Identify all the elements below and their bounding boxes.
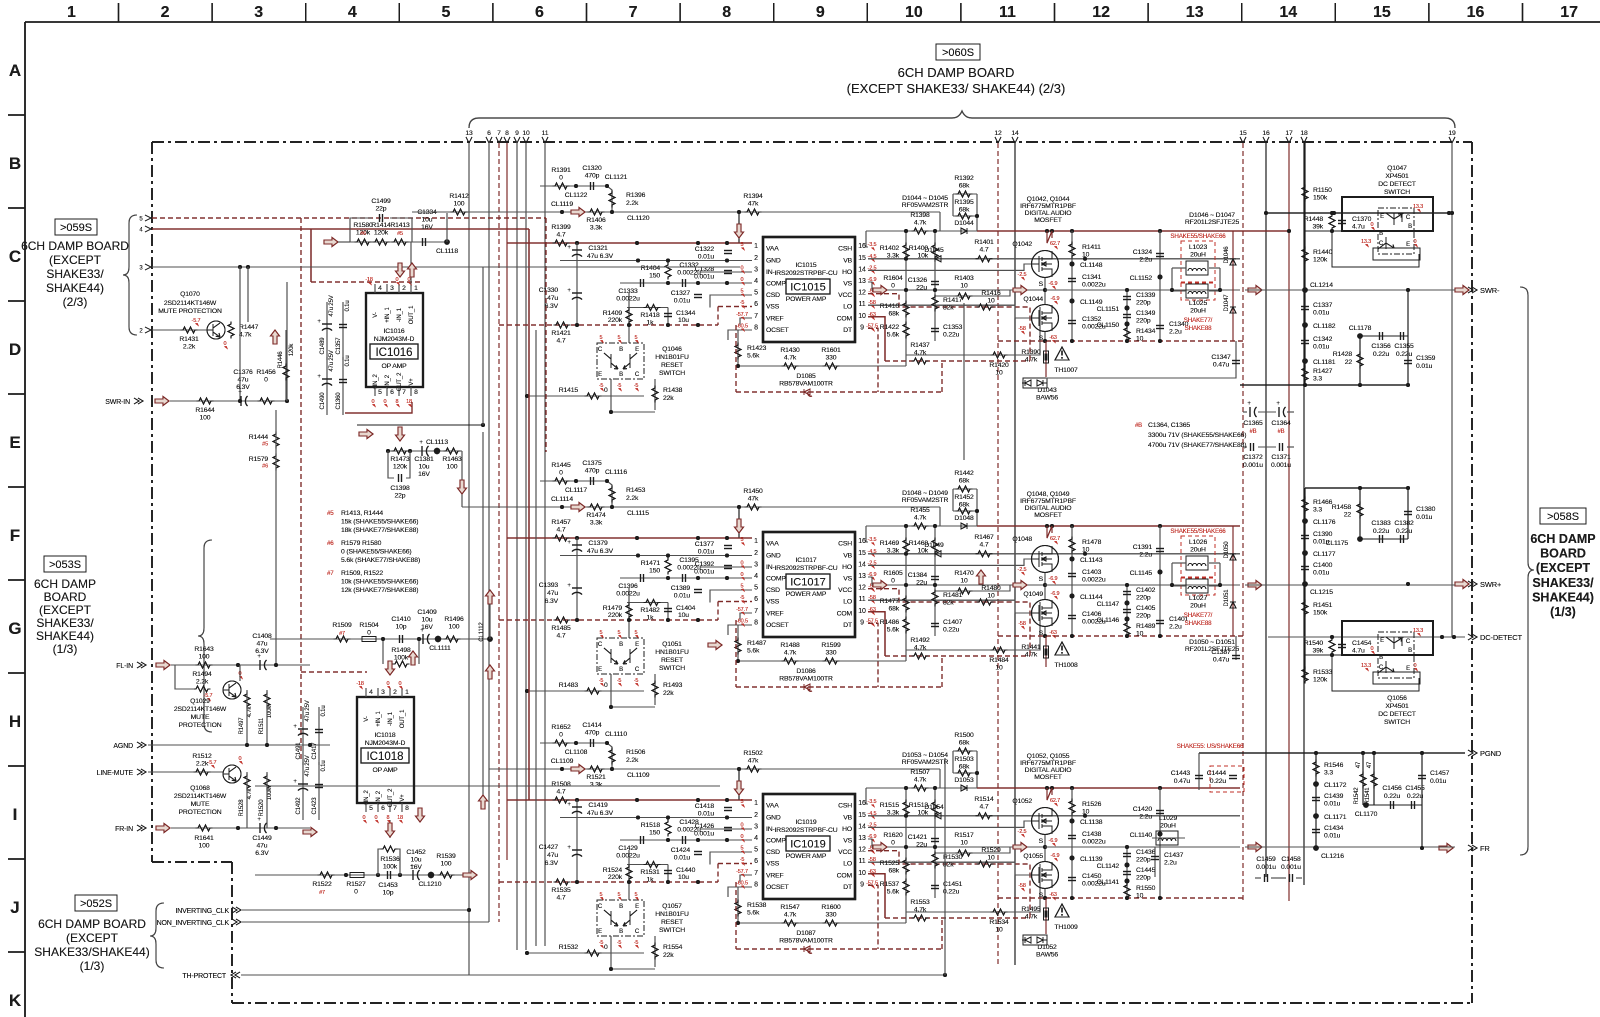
svg-text:R1451: R1451	[1313, 602, 1333, 609]
bottom dashed rail	[998, 635, 1245, 637]
capacitor C1427	[576, 818, 578, 883]
svg-text:0: 0	[367, 630, 371, 637]
svg-text:10: 10	[1082, 809, 1090, 816]
svg-text:-IN_2: -IN_2	[376, 790, 382, 805]
svg-text:L1029: L1029	[1159, 815, 1178, 822]
junction CL1170	[1363, 802, 1369, 808]
svg-text:6CH DAMP BOARD: 6CH DAMP BOARD	[38, 917, 146, 931]
capacitor C1428	[683, 836, 686, 844]
svg-text:D1045: D1045	[924, 247, 944, 254]
svg-text:S: S	[1039, 838, 1044, 845]
svg-text:R1493: R1493	[663, 682, 683, 689]
junction CL1109	[610, 767, 614, 771]
resistor R1467	[976, 551, 993, 557]
junction CL1172	[1313, 781, 1319, 787]
capacitor cluster C1490	[317, 350, 351, 415]
svg-text:CL1112: CL1112	[479, 622, 485, 642]
resistor R1417	[932, 295, 938, 312]
svg-text:120k: 120k	[1313, 257, 1328, 264]
svg-text:18: 18	[1300, 130, 1308, 137]
svg-text:220p: 220p	[1136, 875, 1151, 882]
junction CL1152	[1158, 275, 1163, 280]
resistor R1479	[628, 588, 630, 638]
dc detect Q1047	[1332, 165, 1433, 267]
svg-text:CL1143: CL1143	[1080, 557, 1103, 564]
capacitor C1326	[931, 282, 939, 285]
svg-text:CL1114: CL1114	[551, 496, 573, 503]
mosfet Q1044	[1032, 305, 1059, 332]
svg-text:CL1122: CL1122	[565, 192, 588, 199]
resistor R1547 and R1600	[738, 922, 886, 924]
svg-text:R1441: R1441	[1021, 644, 1041, 651]
svg-text:68k: 68k	[959, 740, 970, 747]
right cluster IC1019	[866, 788, 1240, 949]
svg-text:82k: 82k	[943, 600, 954, 607]
resistor R1445	[553, 478, 570, 484]
svg-text:SWITCH: SWITCH	[1384, 719, 1410, 726]
svg-text:3: 3	[254, 4, 263, 21]
svg-text:C1417: C1417	[312, 742, 318, 760]
svg-text:-5.7: -5.7	[192, 318, 201, 324]
svg-text:47k: 47k	[748, 758, 759, 765]
capacitor C1379	[576, 538, 578, 556]
svg-text:R1522: R1522	[312, 881, 332, 888]
resistor R1418	[627, 307, 668, 309]
top header >060S	[847, 44, 1066, 96]
svg-text:10: 10	[905, 4, 923, 21]
svg-text:47: 47	[1356, 761, 1362, 768]
svg-text:150: 150	[649, 568, 660, 575]
resistor R1422	[903, 322, 909, 339]
svg-text:120k: 120k	[374, 230, 389, 237]
svg-text:R1470: R1470	[954, 570, 974, 577]
svg-text:R1550: R1550	[1136, 885, 1156, 892]
svg-text:-5: -5	[634, 678, 639, 684]
resistor R1537	[903, 879, 909, 896]
svg-text:7: 7	[754, 870, 758, 877]
resistor R1396	[609, 191, 615, 208]
svg-text:12: 12	[994, 130, 1002, 137]
left header >053S	[34, 540, 212, 732]
capacitor C1322	[724, 251, 732, 254]
svg-text:-57.7: -57.7	[736, 312, 748, 318]
svg-text:4.7: 4.7	[980, 247, 989, 254]
svg-text:C1437: C1437	[1164, 852, 1184, 859]
svg-text:VSS: VSS	[766, 304, 780, 311]
G row R1509	[255, 303, 964, 946]
capacitor C1439	[1312, 798, 1320, 801]
svg-text:-63: -63	[1049, 892, 1057, 898]
svg-text:R1535: R1535	[551, 887, 571, 894]
svg-text:47u: 47u	[547, 590, 558, 597]
svg-text:2.2u: 2.2u	[1139, 552, 1152, 559]
resistor R1484	[906, 602, 1040, 650]
junction CL1122	[574, 184, 578, 188]
svg-text:17: 17	[1285, 130, 1293, 137]
op-amp IC1018	[356, 681, 414, 824]
junction CL1145	[1158, 570, 1163, 575]
power amp IC1017	[736, 532, 878, 637]
svg-text:11: 11	[859, 596, 866, 603]
IC1018 top dashed	[301, 671, 367, 673]
capacitor C1328	[724, 271, 732, 274]
svg-text:BAW56: BAW56	[1036, 395, 1058, 402]
svg-text:FR-IN: FR-IN	[115, 826, 133, 833]
svg-text:10p: 10p	[396, 624, 407, 631]
svg-text:R1508: R1508	[551, 781, 571, 788]
capacitor C1389	[694, 590, 702, 593]
svg-text:C1405: C1405	[1136, 605, 1156, 612]
svg-text:0: 0	[604, 682, 608, 689]
resistor R1525	[903, 858, 909, 875]
svg-text:LO: LO	[843, 599, 852, 606]
svg-text:R1540: R1540	[1304, 640, 1324, 647]
svg-text:13: 13	[465, 130, 473, 137]
capacitor C1404	[667, 603, 669, 621]
svg-text:12: 12	[858, 585, 866, 592]
svg-text:D1047: D1047	[1224, 294, 1230, 312]
resistor R1507	[912, 785, 929, 791]
svg-text:R1463: R1463	[442, 456, 462, 463]
right IO arrows	[1439, 286, 1523, 854]
resistor R1553	[912, 915, 929, 921]
svg-text:SWITCH: SWITCH	[659, 370, 685, 377]
svg-text:0.001u: 0.001u	[1256, 864, 1276, 871]
junction CL1115	[610, 505, 614, 509]
svg-text:CL1214: CL1214	[1310, 282, 1333, 289]
svg-text:-5: -5	[599, 940, 604, 946]
svg-text:C1489: C1489	[320, 337, 326, 355]
capacitor C1426	[724, 828, 732, 831]
svg-text:10u: 10u	[678, 612, 689, 619]
svg-text:4.7: 4.7	[980, 542, 989, 549]
R1444 R1579 resistors	[249, 410, 279, 665]
svg-text:6: 6	[535, 4, 544, 21]
bottom dashed rail	[998, 897, 1245, 899]
resistor R1478	[1071, 526, 1073, 636]
svg-text:CL1141: CL1141	[1097, 879, 1120, 886]
junction CL1178	[1359, 336, 1361, 385]
resistor R1451	[1302, 600, 1308, 617]
SWR- rail	[1245, 289, 1455, 291]
power amp IC1017	[736, 532, 878, 637]
svg-text:R1150: R1150	[1313, 187, 1332, 194]
svg-text:4.7k: 4.7k	[1025, 357, 1038, 364]
svg-text:VREF: VREF	[766, 315, 784, 322]
svg-text:#7: #7	[319, 890, 325, 896]
capacitor C1321	[576, 243, 578, 261]
svg-text:R1527: R1527	[346, 881, 366, 888]
svg-text:CL1121: CL1121	[605, 174, 628, 181]
svg-text:2: 2	[754, 550, 758, 557]
junction CL1176	[1302, 518, 1308, 524]
svg-text:C1453: C1453	[378, 882, 398, 889]
svg-text:R1434: R1434	[1136, 328, 1156, 335]
svg-text:39k: 39k	[1312, 224, 1323, 231]
junction CL1141	[1125, 879, 1130, 884]
svg-text:#6: #6	[327, 540, 334, 547]
svg-text:CL1140: CL1140	[1130, 832, 1153, 839]
resistor R1487	[737, 625, 739, 661]
svg-text:15: 15	[1373, 4, 1391, 21]
capacitor C1341	[1068, 279, 1076, 282]
svg-text:8: 8	[722, 4, 731, 21]
svg-text:D1086: D1086	[796, 668, 816, 675]
svg-text:470p: 470p	[585, 468, 600, 475]
svg-text:1: 1	[754, 538, 758, 545]
junction CL1170	[1363, 802, 1369, 808]
svg-text:C1423: C1423	[312, 797, 318, 815]
VSS rail	[499, 881, 718, 883]
wire rows	[560, 554, 752, 636]
svg-text:R1500: R1500	[954, 732, 974, 739]
resistor R1471	[665, 558, 671, 575]
svg-text:0.22u: 0.22u	[1384, 793, 1401, 800]
svg-text:C1457: C1457	[1430, 770, 1450, 777]
resistor R1652	[553, 740, 570, 746]
svg-text:10: 10	[987, 298, 995, 305]
wire rows	[560, 816, 752, 898]
wire pin2 run	[152, 329, 207, 331]
capacitor C1450	[1068, 878, 1076, 881]
svg-text:R1390: R1390	[1021, 349, 1041, 356]
svg-text:20uH: 20uH	[1190, 603, 1206, 610]
arrows near IC1016	[271, 330, 280, 344]
svg-text:INVERTING_CLK: INVERTING_CLK	[175, 908, 229, 915]
svg-text:-18: -18	[356, 681, 364, 687]
resistor R1442	[953, 470, 979, 529]
junction CL1149	[1070, 299, 1075, 304]
right col top	[1240, 143, 1454, 385]
resistor R1396	[609, 191, 615, 208]
capacitor C1359	[1407, 290, 1409, 385]
svg-text:100: 100	[199, 843, 210, 850]
transistor Q1046|HN1B01FU|RESET|SWITCH	[597, 335, 689, 392]
capacitor C1395	[683, 574, 686, 582]
resistor R1514	[976, 813, 993, 819]
svg-text:100k: 100k	[394, 655, 409, 662]
svg-text:CSH: CSH	[838, 803, 852, 810]
capacitor C1459 C1458	[1255, 856, 1302, 882]
mute transistor Q1070	[158, 267, 258, 401]
dc detect Q1047	[1332, 165, 1433, 267]
inductor L1025	[1186, 284, 1208, 298]
AGND row	[113, 742, 330, 750]
svg-text:IC1019: IC1019	[790, 839, 825, 851]
svg-text:3: 3	[754, 823, 758, 830]
svg-text:LINE-MUTE: LINE-MUTE	[97, 770, 134, 777]
svg-text:4.7: 4.7	[557, 232, 566, 239]
junction CL1149	[1070, 299, 1075, 304]
capacitor C1418	[724, 808, 732, 811]
svg-text:R1509, R1522: R1509, R1522	[341, 570, 383, 577]
capacitor cluster C1492	[293, 755, 327, 820]
svg-text:3.3k: 3.3k	[590, 520, 603, 527]
svg-text:VREF: VREF	[766, 872, 784, 879]
capacitor C1332	[683, 279, 686, 287]
svg-text:6: 6	[381, 805, 385, 812]
svg-text:4.7k: 4.7k	[784, 355, 797, 362]
svg-text:3: 3	[381, 689, 385, 696]
svg-text:-57.7: -57.7	[736, 869, 748, 875]
capacitor C1443	[1198, 753, 1200, 790]
capacitor C1342	[1301, 341, 1309, 344]
IC1018 bottom row	[255, 820, 477, 897]
svg-text:CL1149: CL1149	[1080, 299, 1103, 306]
svg-text:SHAKE55/SHAKE66: SHAKE55/SHAKE66	[1170, 233, 1226, 240]
svg-text:13.3: 13.3	[1413, 628, 1423, 634]
junction CL1171	[1313, 813, 1319, 819]
svg-text:CL1210: CL1210	[419, 881, 442, 888]
svg-text:VS: VS	[843, 281, 852, 288]
svg-text:C1458: C1458	[1281, 856, 1301, 863]
resistor R1411	[1071, 231, 1073, 341]
svg-text:R1530: R1530	[943, 854, 963, 861]
wire pin3 run	[152, 266, 740, 268]
svg-text:4.7k: 4.7k	[914, 515, 927, 522]
svg-text:R1514: R1514	[974, 796, 994, 803]
resistor R1532	[527, 952, 644, 954]
inductor L1023	[1232, 231, 1234, 341]
svg-text:C1438: C1438	[1082, 831, 1102, 838]
svg-text:RESET: RESET	[661, 362, 683, 369]
resistor R1406	[588, 209, 605, 215]
op-amp IC1018	[356, 681, 414, 824]
wire pin2 run	[152, 329, 207, 331]
junction CL1150	[1125, 322, 1130, 327]
dc detect Q1056	[1332, 621, 1433, 691]
svg-text:6.3V: 6.3V	[545, 598, 559, 605]
svg-text:10: 10	[858, 608, 866, 615]
capacitor C1393	[576, 556, 578, 621]
resistor R1438	[654, 379, 656, 410]
svg-text:COMP: COMP	[766, 281, 786, 288]
svg-text:CSD: CSD	[766, 292, 780, 299]
svg-text:220p: 220p	[1136, 857, 1151, 864]
wire vertical 536	[535, 330, 537, 946]
svg-text:BOARD: BOARD	[44, 590, 87, 604]
AGND row	[113, 742, 330, 750]
svg-text:22u: 22u	[916, 580, 927, 587]
capacitor C1407	[931, 624, 939, 627]
svg-text:(EXCEPT: (EXCEPT	[66, 931, 119, 945]
svg-text:-5: -5	[599, 678, 604, 684]
capacitor C1347	[1046, 341, 1236, 378]
junction CL1181	[1302, 358, 1308, 364]
right cluster IC1017	[866, 526, 1240, 687]
svg-text:-58: -58	[1018, 621, 1026, 627]
svg-text:COMP: COMP	[766, 576, 786, 583]
svg-text:SWITCH: SWITCH	[1384, 189, 1410, 196]
wire rows	[560, 259, 752, 341]
svg-text:16: 16	[858, 800, 866, 807]
svg-text:1: 1	[405, 689, 409, 696]
svg-text:39k: 39k	[1312, 648, 1323, 655]
IC1018 bottom row	[255, 820, 477, 897]
junction CL1148	[1070, 262, 1075, 267]
thermistor TH1007	[1055, 347, 1069, 360]
resistor R1529	[977, 861, 994, 867]
svg-text:D1054: D1054	[924, 804, 944, 811]
svg-text:47u 25V: 47u 25V	[329, 350, 335, 371]
svg-text:BAW56: BAW56	[1036, 952, 1058, 959]
svg-text:Q1049: Q1049	[1023, 591, 1043, 598]
svg-text:SHAKE88: SHAKE88	[1185, 620, 1213, 627]
svg-text:HO: HO	[842, 269, 852, 276]
thermistor TH1008	[1055, 642, 1069, 655]
svg-text:1: 1	[754, 800, 758, 807]
capacitor C1445	[1123, 872, 1131, 875]
svg-text:10: 10	[960, 578, 968, 585]
svg-text:Q1048, Q1049: Q1048, Q1049	[1027, 491, 1070, 498]
resistor R1451	[1302, 600, 1308, 617]
svg-text:22u: 22u	[916, 842, 927, 849]
R1412	[412, 211, 545, 213]
resistor R1403	[935, 290, 1010, 296]
bottom wire	[1240, 384, 1408, 386]
resistor R1502	[745, 766, 762, 772]
resistor R1392	[953, 175, 979, 234]
svg-text:RB578VAM100TR: RB578VAM100TR	[779, 938, 833, 945]
svg-text:RF05VAM2STR: RF05VAM2STR	[902, 202, 949, 209]
svg-text:E: E	[598, 667, 602, 673]
svg-text:R1482: R1482	[640, 607, 660, 614]
svg-text:R1580: R1580	[353, 222, 373, 229]
junction CL1176	[1302, 518, 1308, 524]
svg-text:VSS: VSS	[766, 861, 780, 868]
svg-text:C1380: C1380	[1416, 506, 1436, 513]
resistor R1438	[654, 379, 656, 410]
power amp IC1019	[736, 794, 878, 899]
svg-text:R1422: R1422	[880, 324, 900, 331]
svg-text:0: 0	[891, 283, 895, 290]
resistor R1468	[932, 538, 938, 555]
svg-text:Q1070: Q1070	[180, 291, 200, 298]
svg-text:CL1181: CL1181	[1313, 359, 1336, 366]
resistor R1440	[1302, 247, 1308, 264]
svg-text:R1430: R1430	[780, 347, 800, 354]
svg-text:E: E	[598, 372, 602, 378]
capacitor C1427	[576, 818, 578, 883]
svg-text:SWR-: SWR-	[1480, 286, 1500, 295]
inductor L1027	[1186, 579, 1208, 593]
inductor L1027	[1186, 579, 1208, 593]
note block	[327, 510, 420, 594]
svg-text:2: 2	[754, 812, 758, 819]
junction CL1150	[1125, 322, 1130, 327]
svg-text:5.6k: 5.6k	[747, 648, 760, 655]
svg-text:SWR-IN: SWR-IN	[105, 399, 130, 406]
capacitor C1405	[1123, 610, 1131, 613]
resistor R1550	[1124, 883, 1130, 900]
svg-text:CL1108: CL1108	[565, 749, 588, 756]
svg-text:4.7k: 4.7k	[1025, 914, 1038, 921]
svg-text:47u 6.3V: 47u 6.3V	[587, 253, 614, 260]
svg-text:(EXCEPT SHAKE33/ SHAKE44) (2/3: (EXCEPT SHAKE33/ SHAKE44) (2/3)	[847, 81, 1066, 96]
svg-text:R1448: R1448	[1304, 216, 1324, 223]
svg-text:LO: LO	[843, 861, 852, 868]
svg-text:0.01u: 0.01u	[674, 855, 691, 862]
mosfet Q1052	[1032, 808, 1059, 835]
svg-text:FR: FR	[1480, 844, 1490, 853]
junction CL1147	[1125, 601, 1130, 606]
junction CL1117	[574, 479, 578, 483]
junction CL1175	[1357, 536, 1363, 542]
junction CL1144	[1070, 594, 1075, 599]
svg-text:R1442: R1442	[954, 470, 974, 477]
svg-text:R1423: R1423	[747, 345, 767, 352]
svg-text:19: 19	[1448, 130, 1456, 137]
